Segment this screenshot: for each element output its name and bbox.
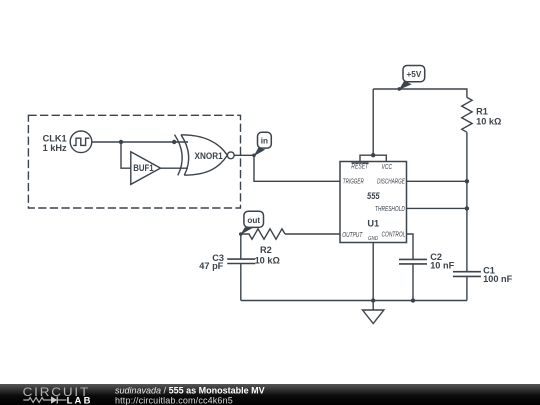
gate XNOR1 xyxy=(175,135,235,176)
node junction at XNOR input A xyxy=(172,140,176,144)
clock source CLK1 xyxy=(70,131,92,153)
junction THRESHOLD xyxy=(465,206,469,210)
pin label RESET xyxy=(351,163,369,171)
ground symbol xyxy=(363,310,384,324)
footer logo LAB xyxy=(67,396,93,405)
junction DISCHARGE xyxy=(465,179,469,183)
label C3 47 pF xyxy=(199,253,224,271)
wire C1 to ground rail xyxy=(466,276,468,300)
junction GND rail xyxy=(371,298,375,302)
svg-text:OUTPUT: OUTPUT xyxy=(342,232,362,239)
svg-text:DISCHARGE: DISCHARGE xyxy=(377,178,405,185)
svg-text:10 nF: 10 nF xyxy=(430,260,454,270)
pin label THRESHOLD xyxy=(375,206,405,213)
svg-text:THRESHOLD: THRESHOLD xyxy=(375,206,405,213)
pin label TRIGGER xyxy=(343,178,364,185)
label C2 10 nF xyxy=(430,252,454,270)
pin label GND xyxy=(368,236,378,242)
wire CONTROL to C2 xyxy=(407,234,414,259)
svg-text:CLK1: CLK1 xyxy=(43,133,67,143)
svg-text:CONTROL: CONTROL xyxy=(382,231,406,238)
wire node in to TRIGGER xyxy=(254,155,340,181)
label C1 100 nF xyxy=(483,266,512,284)
wire +5V rail to R1 xyxy=(373,89,467,98)
wire C3 to ground rail xyxy=(240,264,242,301)
wire VCC to +5V rail xyxy=(372,89,374,155)
junction on VCC bracket xyxy=(371,153,375,157)
node junction at BUF1 tap xyxy=(119,140,123,144)
svg-text:TRIGGER: TRIGGER xyxy=(343,178,364,185)
label 555 xyxy=(367,191,380,201)
svg-text:RESET: RESET xyxy=(351,164,369,171)
svg-text:R1: R1 xyxy=(476,107,488,117)
flag node out xyxy=(239,211,264,236)
svg-text:555: 555 xyxy=(367,191,380,201)
wire THRESHOLD xyxy=(407,207,467,209)
svg-text:10 kΩ: 10 kΩ xyxy=(255,255,280,265)
ground rail wire xyxy=(241,300,467,302)
wire RESET VCC bracket xyxy=(360,155,386,161)
svg-text:out: out xyxy=(247,216,260,225)
wire C2 to ground rail xyxy=(412,264,414,301)
IC U1 555 body xyxy=(340,162,407,243)
pin label OUTPUT xyxy=(342,232,362,239)
pin label CONTROL xyxy=(382,231,406,238)
wire R2 to OUTPUT xyxy=(285,233,340,235)
svg-text:47 pF: 47 pF xyxy=(199,261,223,271)
wire out node to C3 xyxy=(240,234,242,259)
flag node in xyxy=(252,132,271,157)
svg-text:10 kΩ: 10 kΩ xyxy=(476,116,501,126)
wire DISCHARGE xyxy=(407,180,467,182)
junction C2 ground xyxy=(411,298,415,302)
label CLK1 1 kHz xyxy=(43,133,67,153)
svg-text:http://circuitlab.com/cc4k6n5: http://circuitlab.com/cc4k6n5 xyxy=(115,395,233,405)
resistor R2 xyxy=(241,229,285,239)
svg-text:in: in xyxy=(261,136,268,145)
pin label VCC xyxy=(382,164,393,171)
dashed subcircuit box xyxy=(28,115,240,208)
label R2 10 kΩ xyxy=(255,245,280,266)
wire clock to XNOR input A xyxy=(92,141,188,143)
capacitor C2 xyxy=(399,259,427,264)
svg-text:U1: U1 xyxy=(367,218,379,228)
label BUF1 xyxy=(133,163,153,173)
svg-text:GND: GND xyxy=(368,236,378,242)
footer title text xyxy=(115,385,265,395)
label XNOR1 xyxy=(195,151,223,161)
buffer BUF1 xyxy=(131,152,161,185)
footer url text xyxy=(115,395,233,405)
label U1 xyxy=(367,218,379,228)
capacitor C3 xyxy=(227,259,255,263)
svg-text:LAB: LAB xyxy=(67,396,93,405)
label R1 10 kΩ xyxy=(476,107,501,127)
footer logo CIRCUIT xyxy=(23,385,91,399)
svg-text:1 kHz: 1 kHz xyxy=(43,143,67,153)
footer bar xyxy=(0,384,540,405)
wire GND pin to ground xyxy=(372,243,374,311)
resistor R1 xyxy=(462,97,472,132)
svg-text:R2: R2 xyxy=(260,245,272,255)
capacitor C1 xyxy=(453,272,481,277)
wire XNOR1 output to node in xyxy=(234,154,254,156)
wire R1 to DISCHARGE THRESHOLD C1 xyxy=(466,132,468,271)
wire tap down to BUF1 input xyxy=(121,142,131,168)
footer logo resistor diode squiggle xyxy=(23,396,66,403)
svg-text:BUF1: BUF1 xyxy=(133,163,153,173)
svg-text:XNOR1: XNOR1 xyxy=(195,151,223,161)
pin label DISCHARGE xyxy=(377,178,405,185)
svg-text:sudinavada / 555 as Monostable: sudinavada / 555 as Monostable MV xyxy=(115,385,265,395)
svg-text:100 nF: 100 nF xyxy=(483,274,512,284)
wire BUF1 output to XNOR input B xyxy=(161,167,189,169)
power flag +5V xyxy=(398,66,425,91)
svg-text:+5V: +5V xyxy=(407,70,422,79)
svg-text:VCC: VCC xyxy=(382,164,393,171)
